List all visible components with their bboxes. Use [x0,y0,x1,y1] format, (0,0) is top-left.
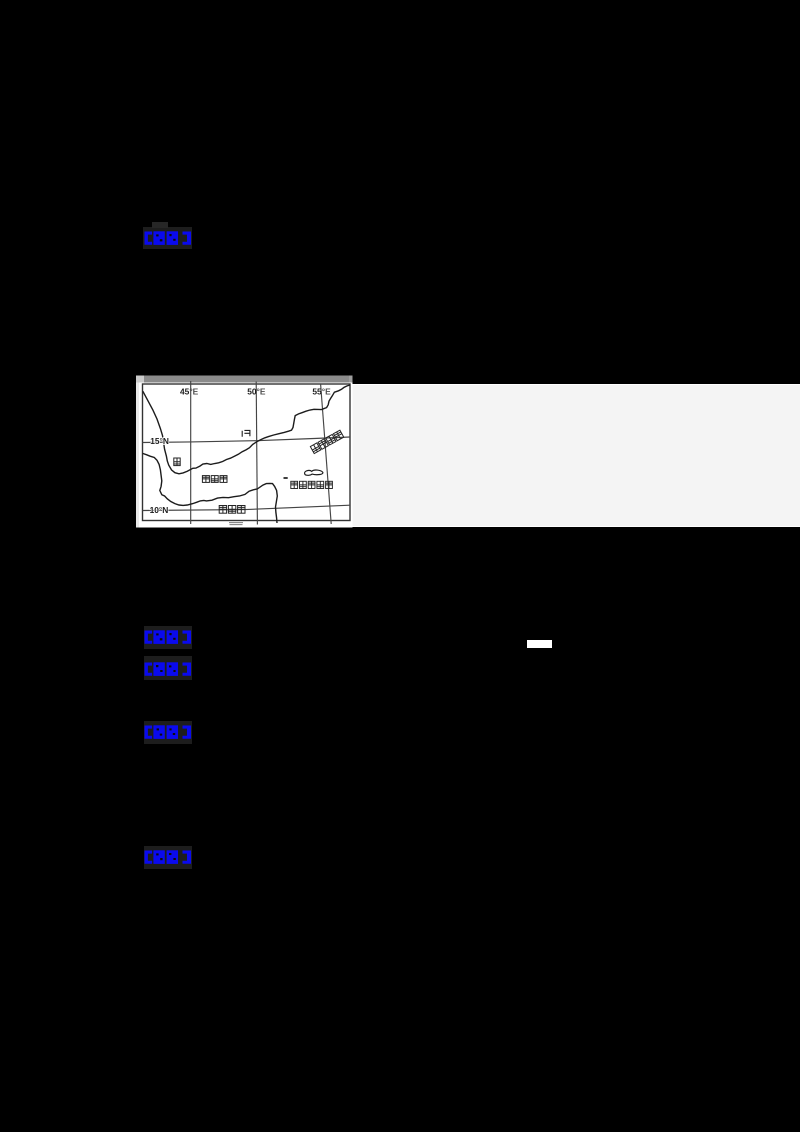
meridian 45E [190,381,192,524]
svg-text:10°N: 10°N [150,505,169,515]
tiny caption under frame [229,523,243,525]
coastline Africa / Somalia [143,453,278,523]
svg-text:45°E: 45°E [180,387,199,397]
label Gulf of Aden (3 fake cjk) [202,476,227,483]
blue label 5: summary [144,850,192,865]
blue label 2: answer [144,630,192,645]
parallel 10N [143,505,351,510]
light gray figure band right of map [352,384,800,527]
ansbox 1 [143,227,192,250]
label door char [242,430,250,436]
parallel 15N [143,437,351,443]
map frame [143,384,351,521]
white dash in answer line [527,640,552,648]
ansbox 5 [144,846,192,869]
label Arabian Sea rotated (4 fake cjk) [310,430,343,453]
ansbox 3 [144,656,192,680]
blue label 4: detail [144,725,192,740]
label Somalia (3 fake cjk) [219,506,245,514]
coastline Arabian peninsula [143,385,350,474]
Socotra island [305,470,323,475]
svg-text:15°N: 15°N [150,436,169,446]
label Socotra island (5 fake cjk) [291,481,333,488]
meridian 50E [256,382,257,525]
small islet dash [284,477,288,479]
meridian 55E [321,384,332,524]
map figure [136,375,353,528]
blue label 1: answer [144,231,192,246]
ansbox 4 [144,721,193,744]
ansbox 2 [144,626,193,649]
left pale strip [136,383,139,528]
svg-text:55°E: 55°E [312,387,331,397]
label strait char [174,458,180,466]
map white body [136,383,353,528]
svg-text:50°E: 50°E [247,387,266,397]
map top scrollbar bar [136,376,353,383]
blue label 3: analysis [144,662,192,677]
